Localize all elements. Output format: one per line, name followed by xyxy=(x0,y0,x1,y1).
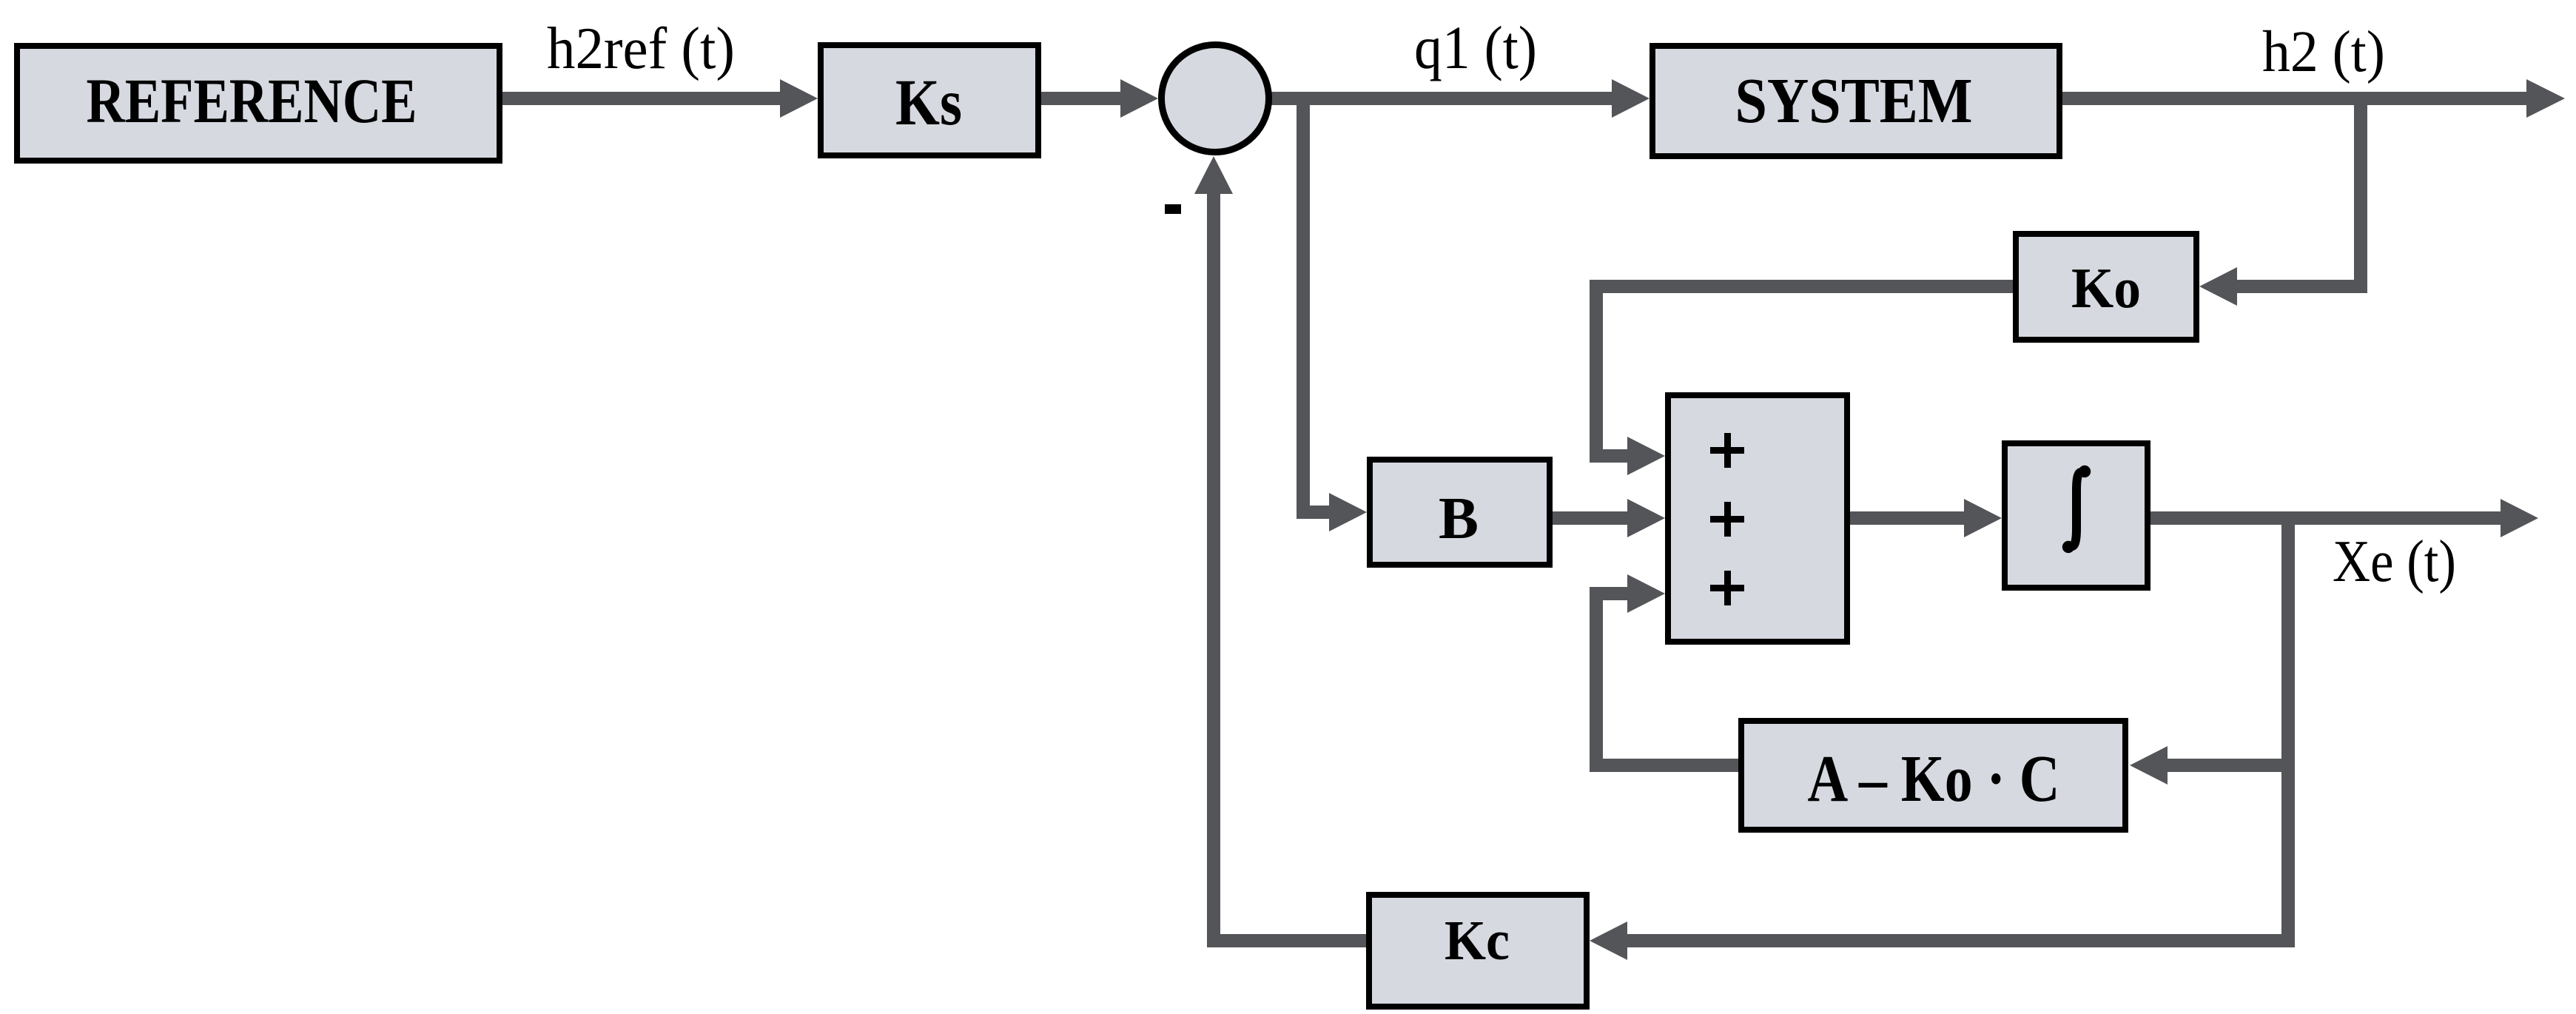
svg-text:q1 (t): q1 (t) xyxy=(1414,13,1537,81)
svg-text:h2 (t): h2 (t) xyxy=(2262,20,2385,84)
wire Xe branch down xyxy=(2281,518,2295,947)
svg-text:B: B xyxy=(1439,485,1479,551)
wire summing block to integrator with arrowhead xyxy=(1850,499,2002,537)
wire Kc output feedback up to sum junction with arrowhead xyxy=(1194,156,1366,947)
wire REFERENCE to Ks with arrowhead xyxy=(502,79,818,118)
wire Ko to summing block top input with arrowhead xyxy=(1590,280,2013,475)
wire integrator to Xe output with arrowhead xyxy=(2150,499,2538,537)
wire h2 branch down to Ko with arrowhead xyxy=(2199,98,2367,306)
svg-text:SYSTEM: SYSTEM xyxy=(1735,64,1973,136)
summing block with plus signs xyxy=(1668,395,1847,642)
svg-text:Ks: Ks xyxy=(895,67,962,139)
plus sign middle xyxy=(1710,516,1744,523)
block REFERENCE xyxy=(17,46,500,161)
wire q1 branch down to B with arrowhead xyxy=(1297,98,1367,531)
svg-text:Ko: Ko xyxy=(2071,256,2141,320)
block integrator xyxy=(2005,443,2148,588)
block Kc xyxy=(1369,895,1587,1007)
block SYSTEM xyxy=(1652,46,2059,156)
wire SYSTEM to h2 output with arrowhead xyxy=(2062,79,2565,118)
block B xyxy=(1370,460,1550,565)
svg-text:Xe (t): Xe (t) xyxy=(2333,529,2456,594)
summing junction circle xyxy=(1162,45,1269,152)
svg-text:h2ref (t): h2ref (t) xyxy=(547,16,735,81)
svg-text:REFERENCE: REFERENCE xyxy=(87,65,417,136)
block A minus Ko times C xyxy=(1741,721,2125,830)
node label minus sign xyxy=(1165,204,1181,214)
wire Ks to sum junction with arrowhead xyxy=(1041,79,1158,118)
block Ko xyxy=(2016,234,2196,340)
wire A-KoC to summing block bottom input with arrowhead xyxy=(1590,574,1738,772)
svg-text:A – Ko · C: A – Ko · C xyxy=(1808,742,2060,816)
svg-text:Kc: Kc xyxy=(1445,910,1510,972)
wire B to summing block middle input with arrowhead xyxy=(1553,499,1665,537)
wire Xe branch to A-KoC block with arrowhead xyxy=(2130,746,2281,785)
plus sign bottom xyxy=(1710,585,1744,591)
plus sign top xyxy=(1710,447,1744,454)
block Ks xyxy=(821,45,1038,155)
wire sum junction to SYSTEM with arrowhead xyxy=(1268,79,1649,118)
wire Xe branch bottom to Kc with arrowhead xyxy=(1590,921,2295,960)
